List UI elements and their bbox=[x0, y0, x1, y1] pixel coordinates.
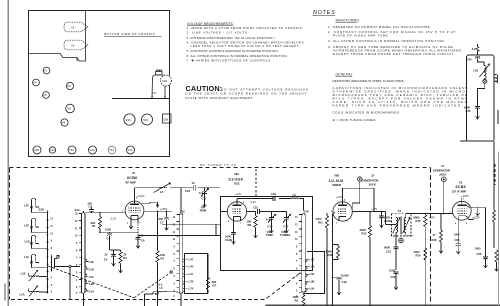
tuner compartment partition bbox=[28, 11, 86, 62]
svg-text:V3: V3 bbox=[44, 69, 48, 73]
capacitor C21 bbox=[384, 239, 399, 270]
svg-text:V12: V12 bbox=[69, 148, 75, 152]
T5 input wire bbox=[386, 224, 397, 226]
scan mark left bbox=[4, 284, 6, 300]
svg-text:RF TUNER TT-46: RF TUNER TT-46 bbox=[200, 163, 236, 167]
svg-text:6CB6: 6CB6 bbox=[456, 185, 466, 189]
svg-text:6. ALL OTHER CONTROLS IN NORMA: 6. ALL OTHER CONTROLS IN NORMAL OPERATIN… bbox=[187, 54, 288, 58]
svg-text:L1D: L1D bbox=[25, 240, 30, 244]
svg-text:+47V: +47V bbox=[336, 195, 343, 199]
svg-text:L9B: L9B bbox=[310, 280, 315, 284]
svg-text:V2B: V2B bbox=[334, 174, 339, 178]
svg-text:L9C: L9C bbox=[310, 272, 315, 276]
tube socket V1 bbox=[64, 22, 88, 32]
svg-text:L2B: L2B bbox=[89, 282, 94, 286]
svg-text:EXCEPT THOSE FROM PHASE DET TH: EXCEPT THOSE FROM PHASE DET THROUGH HORI… bbox=[333, 52, 455, 56]
svg-text:RESISTORS INDICATED IN OHMS, K: RESISTORS INDICATED IN OHMS, K=1000 OHMS… bbox=[333, 79, 405, 83]
svg-text:R13: R13 bbox=[362, 232, 367, 236]
svg-text:+35V: +35V bbox=[429, 215, 436, 219]
svg-text:C7: C7 bbox=[160, 220, 164, 224]
svg-text:L1F: L1F bbox=[24, 204, 29, 208]
tube V8 bbox=[66, 104, 75, 113]
wire fragment right edge bbox=[460, 110, 498, 141]
svg-text:TUNING: TUNING bbox=[280, 233, 290, 237]
capacitor C19 bbox=[333, 274, 350, 295]
tube V11 bbox=[108, 146, 116, 154]
IF strip dashed stub bbox=[494, 164, 496, 185]
wire osc top bbox=[237, 199, 291, 202]
svg-text:1/2-6U8: 1/2-6U8 bbox=[228, 178, 243, 182]
T5 secondary out bbox=[406, 214, 453, 236]
svg-text:V14: V14 bbox=[127, 148, 133, 152]
capacitor C44 bbox=[467, 56, 485, 65]
capacitor C13B bbox=[225, 221, 236, 244]
tube V2A cathode bbox=[234, 216, 241, 221]
wire lower bus bbox=[99, 232, 138, 234]
svg-text:BOTTOM VIEW OF CHASSIS: BOTTOM VIEW OF CHASSIS bbox=[104, 32, 155, 36]
svg-text:5000: 5000 bbox=[384, 245, 390, 249]
svg-text:C13B: C13B bbox=[225, 238, 232, 242]
wire mixer plate up bbox=[343, 188, 374, 203]
gang dashed diagonal S1A-S1C bbox=[48, 266, 170, 298]
tube V1 screen feed arrow bbox=[142, 202, 158, 206]
tuner border left dashed bbox=[9, 168, 11, 300]
svg-text:1. MADE WITH A VTVM FROM POINT: 1. MADE WITH A VTVM FROM POINT INDICATED… bbox=[187, 26, 304, 30]
switch S1C wafer bbox=[179, 214, 183, 294]
trimmer C17 FINE TUNING bbox=[280, 214, 291, 237]
switch S1B strip bbox=[47, 211, 49, 294]
svg-text:1500: 1500 bbox=[105, 228, 111, 232]
arrow L1A adjust bbox=[29, 286, 38, 297]
jack J1 header bbox=[433, 164, 450, 176]
svg-text:R3: R3 bbox=[123, 256, 127, 260]
svg-text:-2.2V: -2.2V bbox=[110, 216, 117, 220]
svg-text:C10: C10 bbox=[185, 189, 190, 193]
capacitor C6 screen bbox=[135, 215, 145, 248]
svg-text:L9D: L9D bbox=[310, 265, 315, 269]
svg-text:V8: V8 bbox=[67, 107, 71, 111]
svg-text:1000: 1000 bbox=[454, 233, 460, 237]
tube V16 bbox=[124, 114, 135, 125]
capacitor C99 bbox=[163, 114, 172, 123]
svg-text:S1D: S1D bbox=[304, 210, 309, 214]
ground cathode V1 bbox=[130, 220, 132, 224]
svg-text:V1: V1 bbox=[71, 26, 75, 30]
wire osc grid bbox=[220, 210, 227, 212]
wire J1 down bbox=[443, 182, 445, 214]
svg-text:1ST IF AMP: 1ST IF AMP bbox=[452, 190, 467, 194]
tube V2A envelope bbox=[227, 202, 246, 221]
svg-text:+24V: +24V bbox=[235, 192, 242, 196]
resistor R18 right edge bbox=[495, 250, 499, 271]
tuner border top dashed bbox=[10, 167, 431, 169]
caption BOTTOM VIEW OF CHASSIS bbox=[104, 32, 162, 36]
transformer T5 box bbox=[392, 214, 412, 236]
svg-text:R8: R8 bbox=[248, 223, 252, 227]
svg-text:1500: 1500 bbox=[389, 268, 395, 272]
svg-text:L2D: L2D bbox=[89, 267, 94, 271]
wire B+ bus bbox=[144, 210, 172, 212]
junction dot bbox=[99, 212, 101, 214]
svg-text:R4: R4 bbox=[161, 256, 165, 260]
svg-text:R15: R15 bbox=[416, 219, 421, 223]
svg-text:R1: R1 bbox=[92, 224, 96, 228]
resistor R7 bbox=[206, 254, 216, 294]
svg-text:L6: L6 bbox=[160, 190, 164, 194]
svg-text:L7E: L7E bbox=[189, 257, 194, 261]
coil labels L7E-L7A bbox=[189, 257, 194, 290]
svg-text:+140V: +140V bbox=[136, 194, 144, 198]
svg-text:LESS THAN 1 VOLT NOISE AT PIN: LESS THAN 1 VOLT NOISE AT PIN NO.3 OF TE… bbox=[191, 44, 300, 48]
tube V2A plate bbox=[233, 204, 242, 206]
resistor 2.2 bbox=[472, 44, 479, 54]
svg-text:R16: R16 bbox=[432, 238, 437, 242]
coil L20 bbox=[473, 64, 489, 79]
switch S1D wafer bbox=[302, 214, 306, 293]
tube V10 bbox=[89, 146, 97, 154]
svg-text:TRIM: TRIM bbox=[266, 233, 273, 237]
T5 secondary bbox=[403, 218, 410, 234]
svg-text:L7A: L7A bbox=[189, 287, 194, 291]
svg-text:TRIM: TRIM bbox=[200, 208, 207, 212]
tube V3 pin numbers bbox=[450, 199, 472, 226]
svg-text:12: 12 bbox=[192, 181, 195, 185]
tube V3 envelope bbox=[452, 201, 471, 220]
coil L6 bbox=[154, 183, 171, 194]
svg-text:RF AMP: RF AMP bbox=[126, 181, 136, 185]
svg-text:3. ALL OTHER CONTROLS IN NORMA: 3. ALL OTHER CONTROLS IN NORMAL OPERATIN… bbox=[328, 39, 445, 43]
oscillator shield box bbox=[221, 197, 313, 271]
svg-text:5000: 5000 bbox=[464, 105, 470, 109]
svg-text:V2: V2 bbox=[71, 44, 75, 48]
wire terminal links bbox=[55, 267, 81, 300]
svg-text:1000: 1000 bbox=[293, 295, 299, 299]
capacitor C22 bbox=[389, 268, 399, 289]
coil L1F bbox=[24, 198, 41, 213]
svg-text:1000: 1000 bbox=[414, 250, 420, 254]
svg-text:V6: V6 bbox=[62, 121, 66, 125]
svg-text:V13: V13 bbox=[50, 148, 56, 152]
coil L5 bbox=[153, 283, 171, 292]
coil labels L2E-L2A bbox=[89, 260, 94, 293]
contact numbers S1B bbox=[50, 219, 53, 294]
svg-text:L1E: L1E bbox=[24, 224, 29, 228]
tube V1 envelope bbox=[125, 201, 144, 220]
wire interstage bus bbox=[135, 187, 221, 189]
svg-text:R12: R12 bbox=[328, 253, 333, 257]
svg-text:+47V: +47V bbox=[371, 207, 378, 211]
contact numbers S1D bbox=[295, 217, 298, 298]
svg-text:V9: V9 bbox=[67, 84, 71, 88]
screen wire bbox=[465, 216, 473, 220]
svg-text:15K: 15K bbox=[247, 219, 252, 223]
wire J2 to grid bbox=[352, 181, 360, 211]
tube V1 plate bbox=[130, 203, 139, 205]
coil L1B bbox=[21, 272, 44, 277]
svg-text:GENERATOR: GENERATOR bbox=[362, 178, 379, 182]
capacitor C98 bbox=[454, 220, 461, 254]
svg-text:L2E: L2E bbox=[89, 260, 94, 264]
iron core symbol L20 bbox=[483, 79, 487, 83]
svg-text:L20: L20 bbox=[473, 69, 478, 73]
svg-text:L1C: L1C bbox=[24, 255, 29, 259]
tube V4 bbox=[33, 79, 40, 86]
svg-text:C4: C4 bbox=[107, 236, 111, 240]
svg-text:C99: C99 bbox=[163, 117, 169, 121]
resistor R3 bbox=[119, 250, 128, 273]
wire V3 plate out bbox=[466, 205, 485, 256]
svg-text:GENERATOR: GENERATOR bbox=[433, 168, 450, 172]
svg-text:5-3.7: 5-3.7 bbox=[199, 191, 206, 195]
svg-text:1000: 1000 bbox=[384, 216, 390, 220]
svg-text:C16: C16 bbox=[271, 192, 276, 196]
svg-text:V5: V5 bbox=[43, 93, 47, 97]
osc header bbox=[228, 172, 256, 204]
coil L1E bbox=[24, 218, 41, 232]
trimmer C11 RF TRIM bbox=[199, 188, 209, 213]
picture tube V17 shelf bbox=[112, 98, 169, 100]
svg-text:L8: L8 bbox=[293, 193, 297, 197]
T5 core bbox=[400, 217, 402, 235]
wire grid bus bbox=[86, 212, 126, 214]
wire S1A top to bus bbox=[83, 211, 85, 306]
tube V9 bbox=[66, 82, 73, 89]
resistor R17 right edge bbox=[492, 141, 495, 248]
resistor R14 bbox=[414, 248, 427, 260]
svg-text:1000: 1000 bbox=[475, 246, 481, 250]
tuner border right dashed bbox=[430, 168, 432, 306]
resistor R16 bbox=[432, 214, 443, 254]
tube V2B grids bbox=[338, 209, 347, 214]
wire down to C45 bbox=[478, 79, 485, 107]
T5 primary bbox=[393, 218, 400, 234]
svg-text:J2: J2 bbox=[371, 174, 374, 178]
tube V1 cathode bbox=[131, 215, 138, 220]
svg-text:C15: C15 bbox=[253, 205, 258, 209]
svg-text:⊕ = IRON TUNING CORES.: ⊕ = IRON TUNING CORES. bbox=[333, 118, 377, 122]
svg-text:R11: R11 bbox=[318, 221, 323, 225]
svg-text:WAVEFORMS:: WAVEFORMS: bbox=[336, 19, 361, 23]
svg-text:2. LINE VOLTAGE - 117 VOLTS.: 2. LINE VOLTAGE - 117 VOLTS. bbox=[187, 31, 249, 35]
tube V3 plate bbox=[457, 204, 466, 206]
svg-text:7. ✱ VARIES WITH SETTINGS OF C: 7. ✱ VARIES WITH SETTINGS OF CONTROLS. bbox=[187, 59, 272, 63]
svg-text:10K: 10K bbox=[160, 253, 165, 257]
svg-text:L9A: L9A bbox=[310, 287, 315, 291]
coil L1D bbox=[25, 235, 42, 249]
svg-text:JACK: JACK bbox=[369, 183, 376, 187]
sound trap box bbox=[467, 55, 495, 141]
svg-text:V2A: V2A bbox=[234, 172, 239, 176]
wire S1C top bbox=[180, 188, 182, 306]
svg-text:COILS INDICATED IN MICROHENRIE: COILS INDICATED IN MICROHENRIES. bbox=[333, 111, 401, 115]
svg-text:C15: C15 bbox=[268, 224, 273, 228]
coil labels L9E-L9A bbox=[310, 257, 315, 290]
svg-text:MIXER: MIXER bbox=[333, 183, 342, 187]
svg-text:C94: C94 bbox=[162, 79, 168, 83]
svg-text:C18B: C18B bbox=[384, 219, 391, 223]
capacitor C45 bbox=[464, 105, 480, 119]
arrow L1B adjust bbox=[29, 271, 38, 282]
svg-text:3.3: 3.3 bbox=[159, 283, 163, 287]
tube V2B pin numbers bbox=[331, 200, 349, 225]
svg-text:L1A: L1A bbox=[20, 293, 25, 297]
svg-text:6800: 6800 bbox=[414, 215, 420, 219]
L7 coil box bbox=[185, 254, 208, 294]
tube V3 bbox=[43, 67, 50, 74]
svg-text:10,000: 10,000 bbox=[341, 274, 350, 278]
svg-text:4700: 4700 bbox=[316, 217, 322, 221]
svg-text:33: 33 bbox=[123, 253, 126, 257]
tube V1 grids bbox=[129, 208, 141, 213]
coil L1C bbox=[24, 254, 41, 268]
svg-text:-3.3V: -3.3V bbox=[250, 200, 257, 204]
resistor R12 bbox=[326, 245, 340, 260]
wire AGC lines bbox=[138, 224, 220, 235]
chassis outline box bbox=[29, 11, 170, 157]
wire bottom bus bbox=[145, 292, 209, 306]
svg-text:C5: C5 bbox=[104, 258, 108, 262]
svg-text:J1: J1 bbox=[441, 164, 444, 168]
tube C95 bbox=[33, 146, 41, 154]
svg-text:100K: 100K bbox=[326, 249, 332, 253]
resistor R8 bbox=[247, 212, 258, 238]
cut-off coil at edge bbox=[495, 75, 498, 83]
svg-text:L2A: L2A bbox=[89, 289, 94, 293]
svg-text:PAPER TYPE AND PREFERRED WHERE: PAPER TYPE AND PREFERRED WHERE INDICATED bbox=[333, 103, 461, 107]
svg-text:C22: C22 bbox=[391, 275, 396, 279]
svg-text:5. CONTRAST CONTROL MAXIMUM CL: 5. CONTRAST CONTROL MAXIMUM CLOCKWISE PO… bbox=[187, 49, 279, 53]
svg-text:L5: L5 bbox=[160, 286, 164, 290]
terminal circle gang bbox=[170, 271, 172, 273]
svg-text:2.2: 2.2 bbox=[472, 47, 476, 51]
svg-text:C6: C6 bbox=[141, 238, 145, 242]
tube V14 bbox=[127, 146, 135, 154]
capacitor C5 bbox=[104, 250, 116, 266]
svg-text:V4: V4 bbox=[33, 81, 37, 85]
svg-text:R9: R9 bbox=[295, 299, 299, 303]
contact numbers S1A bbox=[75, 214, 78, 296]
switch S1A wafer bbox=[82, 213, 86, 294]
svg-text:1/2-6U8: 1/2-6U8 bbox=[329, 179, 344, 183]
svg-text:T.5: T.5 bbox=[398, 209, 402, 213]
svg-text:L9E: L9E bbox=[310, 257, 315, 261]
capacitor C3 bbox=[88, 201, 94, 212]
svg-text:C95: C95 bbox=[34, 148, 40, 152]
svg-text:V3: V3 bbox=[459, 180, 463, 184]
tube V6 bbox=[61, 119, 68, 126]
svg-text:+125V: +125V bbox=[461, 194, 469, 198]
resistor R11 bbox=[316, 213, 329, 306]
svg-text:JACK: JACK bbox=[439, 172, 446, 176]
svg-text:V16: V16 bbox=[126, 118, 131, 122]
capacitor C10 bbox=[185, 181, 195, 193]
capacitor C15 bbox=[247, 205, 266, 214]
svg-text:C45: C45 bbox=[466, 109, 471, 113]
tube V2B plate bbox=[338, 204, 347, 206]
scan edge line left bbox=[7, 0, 9, 306]
tube V2B cathode bbox=[339, 216, 346, 221]
scan edge line bottom bbox=[266, 304, 500, 306]
svg-text:L7B: L7B bbox=[189, 280, 194, 284]
capacitor C23 bbox=[475, 246, 489, 268]
svg-text:V10: V10 bbox=[89, 148, 95, 152]
tube V2B envelope bbox=[333, 202, 352, 221]
svg-text:C3: C3 bbox=[89, 205, 93, 209]
resistor R4 bbox=[156, 211, 165, 306]
wire antenna links bbox=[41, 213, 48, 292]
svg-text:C21: C21 bbox=[386, 249, 391, 253]
terminal junction bbox=[69, 265, 71, 267]
capacitor C4 bbox=[105, 228, 112, 251]
tube V15 bbox=[142, 114, 153, 125]
jack J2 symbol bbox=[358, 177, 362, 181]
svg-text:6CB6: 6CB6 bbox=[127, 176, 137, 180]
svg-text:1. OBSERVED ON DUMONT MODEL 24: 1. OBSERVED ON DUMONT MODEL 241 OSCILLOS… bbox=[328, 25, 431, 29]
resistor R1 bbox=[91, 213, 102, 233]
svg-text:GENERAL:: GENERAL: bbox=[336, 72, 355, 76]
ground plate bypass bbox=[477, 207, 479, 210]
svg-text:L7D: L7D bbox=[189, 265, 194, 269]
tube V2A grids bbox=[233, 209, 242, 214]
wire trimmer feed bbox=[264, 212, 287, 215]
tube socket V2 bbox=[64, 40, 88, 50]
shield dashed stub osc bbox=[255, 169, 257, 197]
svg-text:5-3.5: 5-3.5 bbox=[266, 218, 273, 222]
contact numbers S1C bbox=[173, 217, 176, 298]
svg-text:C19: C19 bbox=[342, 280, 347, 284]
capacitor C16 bbox=[271, 192, 276, 201]
tube V13 bbox=[49, 147, 55, 153]
svg-text:R7: R7 bbox=[213, 283, 217, 287]
svg-text:R14: R14 bbox=[416, 254, 421, 258]
mixer header bbox=[329, 174, 344, 199]
svg-text:1500: 1500 bbox=[157, 217, 163, 221]
svg-text:V11: V11 bbox=[109, 148, 114, 152]
svg-text:NOTES: NOTES bbox=[313, 10, 336, 16]
tube V5 bbox=[43, 92, 50, 99]
tube V1 header bbox=[126, 171, 145, 198]
tuner border bottom dashed bbox=[11, 272, 302, 300]
svg-text:V17: V17 bbox=[152, 91, 157, 95]
svg-text:PLATE OF VIDEO AMP TUBE.: PLATE OF VIDEO AMP TUBE. bbox=[333, 33, 389, 37]
svg-text:PLATE WITH ORDINARY EQUIPMENT.: PLATE WITH ORDINARY EQUIPMENT. bbox=[186, 96, 254, 100]
resistor R9 bbox=[293, 294, 306, 306]
tube V3 grids bbox=[457, 209, 466, 214]
svg-text:350K: 350K bbox=[360, 228, 366, 232]
svg-text:C98: C98 bbox=[455, 238, 460, 242]
svg-text:V1: V1 bbox=[132, 171, 136, 175]
resistor R13 bbox=[360, 212, 372, 306]
svg-text:3. ANTENNA DISCONNECTED. (S2 I: 3. ANTENNA DISCONNECTED. (S2 IN LOCAL PO… bbox=[187, 36, 275, 40]
wire C5/R3 bus bbox=[110, 249, 121, 251]
svg-text:C23: C23 bbox=[477, 252, 482, 256]
picture tube V17 bbox=[152, 70, 172, 99]
svg-text:L1B: L1B bbox=[21, 272, 26, 276]
T5 core symbol bbox=[399, 238, 404, 243]
capacitor C7 bbox=[157, 211, 169, 230]
wire mixer cathode down bbox=[333, 212, 335, 306]
svg-text:22K: 22K bbox=[212, 280, 217, 284]
tube V3 cathode bbox=[458, 216, 465, 220]
scan edge line right bbox=[498, 152, 500, 306]
svg-text:S1B: S1B bbox=[39, 208, 44, 212]
svg-text:+135V: +135V bbox=[160, 207, 168, 211]
coil L1A bbox=[20, 289, 44, 297]
jack J1 symbol bbox=[441, 177, 446, 182]
tube V1 pin numbers bbox=[122, 198, 142, 225]
svg-text:L2C: L2C bbox=[89, 275, 94, 279]
svg-text:1000: 1000 bbox=[225, 234, 231, 238]
